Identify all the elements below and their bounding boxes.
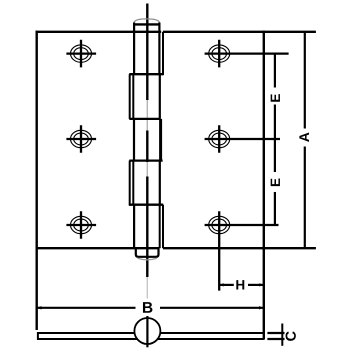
knuckle K3 left edge xyxy=(133,119,135,161)
hinge leaf top edge (right leaf) + A extension line xyxy=(163,31,316,33)
screw hole mid-right inner circle xyxy=(212,133,227,145)
dimension C vertical line xyxy=(281,324,283,346)
knuckle K4 right edge xyxy=(159,161,161,205)
left leaf left edge + B extension line xyxy=(36,31,38,330)
dimension line E (upper segment above label) xyxy=(274,54,276,88)
knuckle K4 outer left edge xyxy=(129,161,131,205)
left leaf inner edge (lower) xyxy=(132,161,134,205)
knuckle boundary 2 xyxy=(129,118,160,120)
side view bar left end cap xyxy=(37,332,39,340)
pin center line gray segment 1 xyxy=(146,100,148,131)
side view bar bottom edge (right of circle) xyxy=(158,338,264,340)
label B xyxy=(143,302,152,313)
left leaf inner edge (upper) xyxy=(132,74,134,119)
label E upper xyxy=(271,94,280,102)
right leaf right edge + extension to side view xyxy=(263,31,265,340)
screw hole top-right outer circle xyxy=(209,45,230,62)
knuckle K2 right edge xyxy=(159,74,161,119)
pin top cap dome xyxy=(134,19,159,25)
pin line through side view circle xyxy=(146,316,148,347)
pin center line gray segment 2 xyxy=(146,162,148,177)
label A xyxy=(299,133,309,142)
dimension C tick bottom xyxy=(267,338,284,340)
side view bar top edge (right of circle) xyxy=(160,332,264,334)
arrowhead H left xyxy=(219,283,224,286)
arrowhead B right xyxy=(259,306,264,309)
hinge leaf top edge (left leaf + barrel span) xyxy=(36,31,162,33)
screw hole mid-right crosshair + E tick xyxy=(205,125,280,153)
knuckle K1 right edge xyxy=(158,23,160,75)
pin axis black segment (lower) xyxy=(146,177,148,278)
dimension line B (right of label) xyxy=(160,307,264,309)
dimension C tick top xyxy=(267,332,284,334)
label C xyxy=(286,331,296,340)
knuckle boundary 3 xyxy=(129,159,162,161)
screw hole mid-right outer circle xyxy=(209,130,230,147)
screw hole mid-left outer circle xyxy=(71,130,92,147)
dimension line H (left of label) xyxy=(219,284,234,286)
screw hole top-right crosshair + E tick xyxy=(205,40,289,68)
screw hole bottom-right inner circle xyxy=(212,219,227,231)
screw hole top-left crosshair xyxy=(66,40,96,68)
screw hole bottom-left outer circle xyxy=(71,216,92,233)
dimension line A (above label) xyxy=(304,32,306,129)
knuckle K1 left edge xyxy=(133,23,135,75)
screw hole top-right inner circle xyxy=(212,48,227,60)
arrowhead B left xyxy=(37,306,42,309)
knuckle K2 outer left edge xyxy=(129,74,131,119)
screw hole bottom-right outer circle xyxy=(209,216,230,233)
pin bottom cap outline xyxy=(136,248,159,257)
screw hole bottom-left inner circle xyxy=(74,219,89,231)
dimension line E (lower segment below label) xyxy=(274,192,276,225)
hinge leaf bottom edge (right leaf) + A extension line xyxy=(163,247,316,249)
dimension line E (lower segment above label) xyxy=(274,139,276,172)
knuckle K5 right edge xyxy=(159,205,161,249)
screw hole top-left outer circle xyxy=(71,45,92,62)
screw hole bottom-left crosshair xyxy=(66,211,96,239)
right leaf inner edge (bottom stub) xyxy=(162,205,164,249)
pin bottom cap dome xyxy=(138,258,157,260)
dimension line H (right of label) xyxy=(248,284,264,286)
dimension line A (below label) xyxy=(304,147,306,249)
knuckle boundary 4 xyxy=(129,204,163,206)
side view bar top edge (left of circle) xyxy=(38,332,135,334)
pin axis black segment (middle) xyxy=(146,131,148,163)
pin top cap bottom line xyxy=(133,23,160,25)
knuckle boundary 1 xyxy=(129,73,163,75)
pin center line gray segment 3 xyxy=(146,277,148,299)
label E lower xyxy=(271,179,280,187)
dimension line B (left of label) xyxy=(37,307,136,309)
screw hole top-left inner circle xyxy=(74,48,89,60)
knuckle K3 right edge xyxy=(159,119,162,161)
side view barrel circle xyxy=(134,318,160,344)
label H xyxy=(236,280,244,289)
knuckle K5 left edge xyxy=(133,205,135,249)
dimension line E (upper segment below label) xyxy=(274,105,276,140)
screw hole mid-left crosshair xyxy=(66,125,96,153)
right leaf inner edge (upper) xyxy=(162,32,164,75)
side view bar bottom edge (left of circle) xyxy=(38,338,137,340)
arrowhead H right xyxy=(259,283,264,286)
screw hole mid-left inner circle xyxy=(74,133,89,145)
screw hole bottom-right crosshair + E tick + H extension xyxy=(205,211,279,290)
hinge leaf bottom edge (left leaf + barrel span) xyxy=(36,247,160,249)
pin axis black segment (top) xyxy=(146,4,148,101)
